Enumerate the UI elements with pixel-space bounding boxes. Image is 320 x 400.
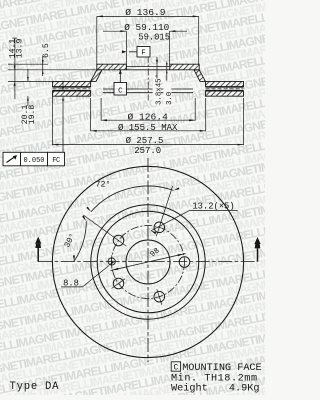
inboard plate thickness arrows / FCF leader [62, 81, 64, 87]
svg-text:257.0: 257.0 [134, 146, 161, 156]
svg-text:Ø 257.5: Ø 257.5 [126, 136, 164, 146]
radial tick 216 deg [112, 279, 125, 289]
svg-text:C: C [173, 364, 178, 373]
svg-text:MOUNTING FACE: MOUNTING FACE [182, 363, 261, 374]
svg-text:3.0: 3.0 [166, 92, 174, 105]
note: C MOUNTING FACE [171, 362, 262, 395]
30&#176; dimension arc [74, 221, 86, 261]
svg-text:F: F [141, 50, 145, 58]
svg-text:Type DA: Type DA [10, 381, 60, 393]
svg-text:FC: FC [52, 157, 60, 165]
dim 14.1/13.9 [14, 38, 16, 99]
svg-text:4.9Kg: 4.9Kg [229, 384, 260, 395]
svg-text:Ø 155.5 MAX: Ø 155.5 MAX [118, 123, 178, 133]
bolt hole at 0 deg [179, 257, 190, 268]
svg-text:Ø 136.9: Ø 136.9 [125, 7, 166, 18]
svg-text:6.5: 6.5 [42, 43, 51, 58]
radial tick 144 deg [83, 215, 126, 246]
locating hole 8.8 [108, 258, 115, 265]
hat left wall (hatched) [91, 70, 102, 82]
bolt hole at 288 deg [154, 291, 165, 302]
svg-text:Min. TH18.2mm: Min. TH18.2mm [171, 372, 258, 384]
braking surface circle [91, 205, 205, 319]
dim Ø136.9 [96, 16, 98, 64]
vent gap inner lines + center dashes [53, 86, 91, 88]
bolt hole at 144 deg [113, 235, 124, 246]
cross-section: right outer band (hatched) [206, 81, 244, 86]
svg-text:C: C [118, 88, 123, 96]
feature control frame: runout 0.050 FC [3, 152, 65, 166]
dim 20.1/19.8 [27, 69, 29, 82]
dim 3.8x45&#176; [156, 57, 158, 79]
dim Ø257.5 / 257.0 [52, 96, 54, 145]
bolt hole at 216 deg [113, 278, 124, 289]
hub bore circle [126, 240, 170, 284]
svg-text:72°: 72° [95, 180, 110, 190]
radial tick 288 deg [157, 289, 162, 305]
far-side lines seen through center hole [126, 66, 169, 68]
front view: vertical center line [147, 158, 149, 362]
svg-text:Weight: Weight [171, 383, 208, 395]
hat flange left (hatched) + left wall [97, 64, 127, 70]
section arrow right [257, 248, 259, 261]
dim Ø155.5 MAX [90, 98, 92, 131]
svg-text:13.9: 13.9 [16, 39, 25, 59]
hat right wall (hatched) [194, 70, 206, 82]
dim Ø59.110 / 59.015 [125, 31, 127, 64]
cross-section vertical centerline [147, 56, 149, 101]
svg-text:19.8: 19.8 [28, 105, 37, 125]
dim Ø126.4 [100, 98, 102, 121]
72&#176; dimension arc [91, 186, 174, 212]
bolt circle (dash-dot) [112, 226, 185, 299]
dim 3.0 [166, 62, 168, 81]
datum F box [137, 47, 150, 58]
hat circle [97, 211, 199, 313]
bolt hole at 72 deg [154, 222, 165, 233]
section arrow left [37, 248, 39, 262]
svg-text:Ø 59.110: Ø 59.110 [124, 22, 169, 33]
svg-text:59.015: 59.015 [138, 32, 170, 42]
dim 6.5 [42, 56, 44, 76]
outer circle [52, 166, 243, 357]
front view: horizontal center line / section cut line [38, 261, 257, 263]
datum C box (section) [119, 70, 121, 83]
extension lines left [8, 63, 48, 65]
svg-text:0.050: 0.050 [23, 157, 44, 165]
svg-text:Ø 126.4: Ø 126.4 [128, 111, 169, 122]
cross-section: left outer band (hatched) [53, 81, 91, 86]
far-side hub lines between hat walls [103, 88, 193, 90]
dim 98 bolt circle diagonal [111, 254, 186, 271]
svg-text:3.8x45°: 3.8x45° [154, 74, 163, 105]
radial tick 72 deg [156, 186, 172, 236]
hat flange right (hatched) + right wall [170, 64, 199, 70]
